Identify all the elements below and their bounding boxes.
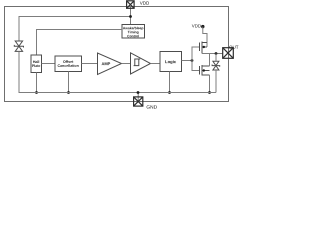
- wire ground rail: [19, 92, 216, 94]
- svg-text:AMP: AMP: [101, 61, 110, 66]
- block Awake/Sleep Timing Control: [122, 25, 145, 39]
- node VDD junction: [129, 15, 132, 18]
- node Offset ground junction: [67, 91, 70, 94]
- pin pad VDD: [127, 1, 135, 9]
- node Hall ground junction: [35, 91, 38, 94]
- pin pad GND: [134, 97, 143, 106]
- node Q2 source ground junction: [208, 91, 211, 94]
- wire Offset Cancellation to AMP: [82, 63, 98, 65]
- wire AMP to Schmitt trigger: [122, 63, 131, 65]
- transistor Q1 (high-side MOSFET): [200, 42, 208, 54]
- svg-text:Cancellation: Cancellation: [57, 64, 78, 68]
- wire VDD to Q1 source: [203, 27, 207, 47]
- wire zener top: [215, 54, 217, 62]
- wire VDD pad to junction: [130, 7, 132, 17]
- wire Logic to ground rail: [169, 72, 171, 93]
- wire gate node to Q2 gate: [192, 61, 200, 71]
- block Hall Plate: [31, 55, 42, 73]
- node internal VDD: [201, 25, 204, 28]
- wire VDD junction to left TVS: [19, 17, 131, 42]
- wire Hall plate to Offset Cancellation: [42, 63, 56, 65]
- node Logic ground junction: [168, 91, 171, 94]
- pin pad OUT: [223, 48, 234, 59]
- svg-text:Logic: Logic: [165, 59, 177, 64]
- svg-text:Plate: Plate: [32, 64, 41, 68]
- block Offset Cancellation: [55, 56, 82, 72]
- wire VDD junction to Awake/Sleep box: [130, 17, 132, 25]
- wire GND pad to rail: [137, 93, 139, 102]
- wire Logic to gate node: [182, 60, 193, 62]
- op-amp AMP: [98, 53, 122, 75]
- svg-text:Control: Control: [127, 34, 139, 38]
- wire Q2 source to ground rail: [209, 75, 211, 93]
- node gate junction: [191, 59, 194, 62]
- wire Q2 drain to OUT line: [209, 54, 211, 67]
- wire zener to ground rail: [215, 70, 217, 93]
- wire gate node to Q1 gate: [192, 47, 200, 61]
- diode D1 left TVS (back-to-back zener): [14, 41, 23, 51]
- svg-text:GND: GND: [146, 105, 157, 111]
- diode D2 output zener: [212, 61, 220, 70]
- transistor Q2 (low-side MOSFET): [200, 65, 210, 76]
- IC package outline: [5, 7, 229, 102]
- svg-text:VDD: VDD: [140, 1, 150, 6]
- node GND junction: [137, 91, 140, 94]
- svg-text:OUT: OUT: [229, 45, 239, 50]
- wire Schmitt to Logic: [151, 63, 161, 65]
- block Logic: [160, 52, 182, 72]
- node zener tap: [215, 52, 218, 55]
- wire Offset Cancellation to ground rail: [68, 72, 70, 93]
- Schmitt trigger U2: [131, 53, 151, 74]
- wire Awake/Sleep box to Hall plate: [37, 30, 123, 56]
- wire OUT node line: [202, 53, 223, 55]
- svg-text:VDD: VDD: [192, 23, 201, 28]
- wire left TVS to ground rail: [19, 51, 37, 92]
- hysteresis symbol: [134, 59, 139, 66]
- wire Hall plate to ground rail: [36, 73, 38, 93]
